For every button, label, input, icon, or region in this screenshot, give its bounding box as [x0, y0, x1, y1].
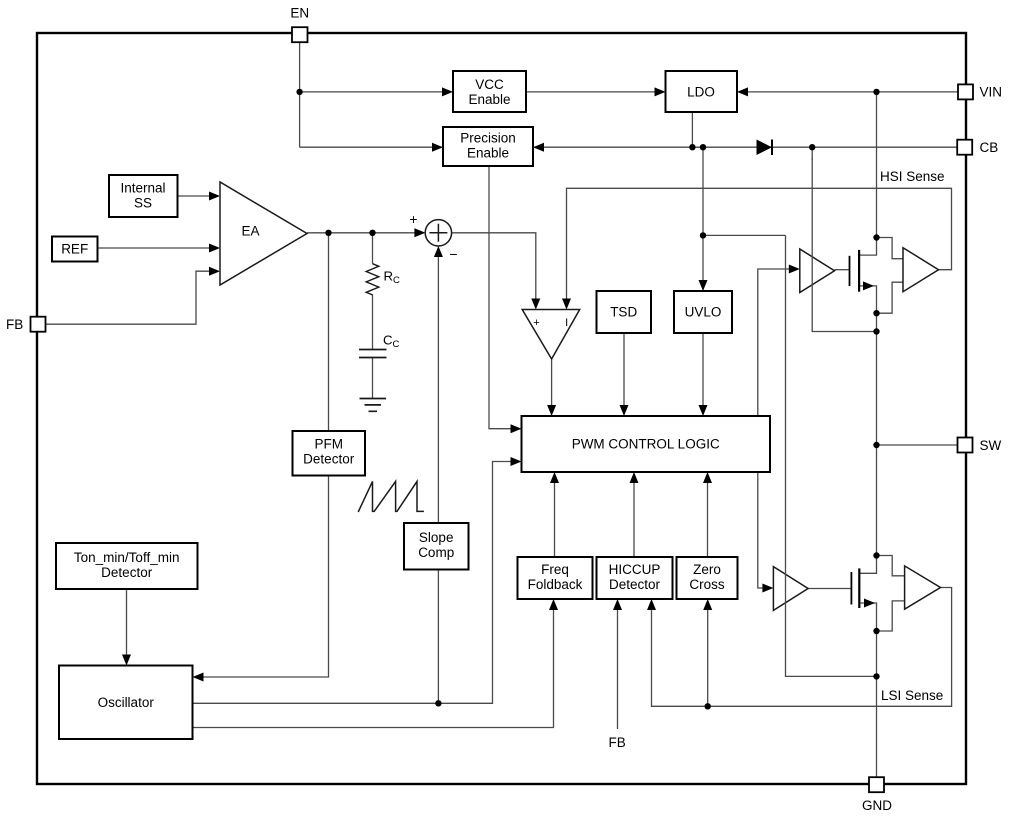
pin EN	[290, 6, 309, 43]
svg-text:−: −	[449, 246, 457, 262]
wire LSI sense line to Zero Cross	[703, 599, 712, 706]
node LSI sense line to Zero Cross	[705, 703, 711, 709]
wire VIN to LDO	[737, 87, 958, 96]
wire summing node output to PWM comparator plus input	[452, 233, 541, 310]
wire VCC rail to LS driver branch point	[703, 234, 786, 236]
wire HS FET gate lead	[835, 269, 850, 271]
wire HS FET source stub	[859, 286, 876, 313]
wire PFM detector to oscillator	[193, 476, 329, 682]
comparator PWM (inputs + and I)	[522, 310, 580, 360]
node EA output to compensation	[369, 230, 375, 236]
svg-text:PFM: PFM	[314, 437, 343, 452]
wire Rc to Cc	[372, 295, 374, 350]
wire PWM logic to LS gate driver	[758, 472, 774, 593]
node CB rail joins SW rail	[873, 328, 879, 334]
wire LS FET drain stub	[859, 556, 876, 574]
svg-text:+: +	[409, 211, 417, 227]
block LDO	[666, 71, 738, 112]
node CB branch after diode	[809, 144, 815, 150]
block PFM Detector	[293, 431, 366, 476]
wire Zero Cross to PWM logic	[703, 472, 712, 557]
wire oscillator to PWM logic	[193, 457, 522, 703]
wire TSD to PWM logic	[620, 333, 629, 416]
block Precision Enable	[443, 127, 533, 166]
wire oscillator to slope comp	[437, 570, 439, 704]
wire LSI sense output to HICCUP detector	[647, 588, 952, 707]
svg-text:GND: GND	[862, 798, 892, 813]
wire HICCUP detector to PWM logic	[630, 472, 639, 557]
node VCC branch on CB line	[700, 144, 706, 150]
svg-text:Comp: Comp	[418, 545, 454, 560]
svg-text:Enable: Enable	[468, 92, 510, 107]
wire HSI sense output to PWM comparator I input	[562, 188, 952, 309]
node SW rail to SW pin	[873, 442, 879, 448]
block Slope Comp	[404, 523, 469, 570]
wire VCC rail passing through LS driver to GND rail	[786, 235, 877, 676]
node oscillator output to slope comp	[435, 700, 441, 706]
svg-text:TSD: TSD	[610, 305, 637, 320]
svg-text:SS: SS	[134, 196, 152, 211]
node LS FET drain	[873, 552, 879, 558]
wire EA output to PFM detector	[328, 233, 330, 431]
svg-text:Detector: Detector	[609, 577, 661, 592]
wire SW rail	[876, 313, 878, 555]
wire HS FET drain stub	[859, 238, 876, 256]
wire UVLO to PWM logic	[699, 333, 708, 416]
block UVLO	[674, 291, 732, 333]
wire CB line to Precision Enable	[533, 143, 958, 152]
svg-text:PWM CONTROL LOGIC: PWM CONTROL LOGIC	[572, 437, 720, 452]
wire VCC Enable to LDO	[526, 87, 666, 96]
buffer LS gate driver	[773, 567, 808, 611]
svg-text:Zero: Zero	[693, 562, 721, 577]
node HS FET source	[873, 310, 879, 316]
wire slope comp to summing node	[434, 246, 443, 523]
block Freq Foldback	[518, 557, 593, 599]
node LDO output on CB line	[689, 144, 695, 150]
transistor LS power FET	[851, 568, 875, 608]
wire HSI sense amp bottom input	[877, 282, 904, 313]
wire EA output to summing node	[307, 228, 425, 237]
svg-text:EA: EA	[241, 224, 259, 239]
ground symbol	[360, 399, 387, 412]
pin CB	[957, 140, 998, 155]
pin FB	[6, 317, 46, 332]
block Ton_min/Toff_min Detector	[56, 543, 198, 589]
wire HSI sense amp top input	[877, 238, 904, 259]
svg-text:Freq: Freq	[541, 562, 569, 577]
wire EA output to compensation network	[372, 233, 374, 264]
svg-text:EN: EN	[290, 6, 309, 21]
transistor HS power FET	[850, 250, 875, 292]
wire LDO output down to CB line	[691, 112, 693, 147]
wire VIN rail down to HS FET drain	[876, 92, 878, 238]
svg-text:LDO: LDO	[687, 85, 715, 100]
svg-text:Enable: Enable	[467, 146, 509, 161]
block TSD	[597, 291, 652, 333]
node EN branch	[296, 89, 302, 95]
svg-text:FB: FB	[6, 317, 23, 332]
wire FB input to HICCUP detector	[613, 599, 622, 729]
op-amp EA error amplifier	[220, 182, 307, 285]
wire Internal SS to EA	[178, 192, 221, 201]
summing node with + and - inputs	[409, 211, 457, 262]
wire PWM comparator output to PWM logic	[547, 359, 556, 416]
wire FB pin to EA	[46, 267, 221, 325]
amp LSI sense	[905, 566, 941, 609]
svg-text:Slope: Slope	[419, 530, 454, 545]
block Zero Cross	[677, 557, 738, 599]
wire VCC to UVLO	[699, 147, 708, 291]
wire EN pin down to Precision Enable corner	[299, 43, 301, 148]
block Internal SS	[109, 175, 178, 217]
block Oscillator	[59, 666, 193, 740]
svg-text:Detector: Detector	[303, 452, 355, 467]
block REF	[52, 237, 98, 262]
node VIN branch	[873, 89, 879, 95]
block PWM CONTROL LOGIC	[522, 416, 771, 472]
wire Ton_min detector to oscillator	[122, 589, 131, 666]
svg-text:Internal: Internal	[120, 181, 165, 196]
block VCC Enable	[453, 71, 526, 112]
wire LS FET source stub	[859, 603, 876, 631]
wire GND rail	[876, 631, 878, 777]
svg-text:HICCUP: HICCUP	[609, 562, 661, 577]
capacitor CC	[359, 333, 400, 358]
svg-text:Precision: Precision	[460, 131, 516, 146]
wire LSI sense amp top input	[877, 556, 905, 576]
svg-text:FB: FB	[609, 735, 626, 750]
svg-text:Detector: Detector	[101, 565, 153, 580]
svg-text:Foldback: Foldback	[528, 577, 583, 592]
svg-text:Oscillator: Oscillator	[98, 695, 155, 710]
svg-text:LSI Sense: LSI Sense	[881, 688, 943, 703]
svg-text:VCC: VCC	[475, 77, 504, 92]
svg-text:Ton_min/Toff_min: Ton_min/Toff_min	[74, 550, 180, 565]
svg-text:Cross: Cross	[689, 577, 725, 592]
wire oscillator to Freq Foldback	[193, 599, 559, 728]
node EA output to PFM	[325, 230, 331, 236]
svg-text:SW: SW	[980, 438, 1002, 453]
pin SW	[958, 438, 1002, 453]
node LS FET source	[873, 628, 879, 634]
pin VIN	[958, 84, 1002, 99]
node HS FET drain	[873, 234, 879, 240]
svg-text:REF: REF	[61, 242, 88, 257]
diode bootstrap	[757, 140, 773, 156]
wire EN to VCC Enable	[300, 87, 453, 96]
wire LS FET gate lead	[808, 588, 851, 590]
wire REF to EA	[98, 244, 221, 253]
node VCC branch to LS driver	[700, 232, 706, 238]
resistor RC	[366, 264, 400, 295]
svg-text:UVLO: UVLO	[685, 305, 722, 320]
wire Precision Enable to PWM logic	[489, 166, 522, 433]
sawtooth ramp waveform	[358, 481, 424, 512]
buffer HS gate driver	[800, 249, 835, 293]
wire SW rail to SW pin	[877, 444, 958, 446]
wire CB rail branch point	[811, 147, 813, 160]
svg-text:HSI Sense: HSI Sense	[880, 169, 945, 184]
svg-text:VIN: VIN	[980, 85, 1003, 100]
svg-text:I: I	[565, 317, 568, 329]
block HICCUP Detector	[597, 557, 673, 599]
svg-text:+: +	[533, 317, 539, 329]
wire PWM logic to HS gate driver	[758, 265, 800, 417]
wire EN to Precision Enable	[300, 143, 443, 152]
pin GND	[862, 777, 892, 813]
svg-text:CB: CB	[980, 140, 999, 155]
wire LSI sense amp bottom input	[877, 601, 905, 631]
amp HSI sense	[903, 248, 939, 292]
wire CB rail passing through HS driver to SW rail	[812, 158, 876, 332]
node LS driver rail joins GND rail	[873, 673, 879, 679]
wire Freq Foldback to PWM logic	[550, 472, 559, 557]
wire Cc to ground	[372, 358, 374, 399]
